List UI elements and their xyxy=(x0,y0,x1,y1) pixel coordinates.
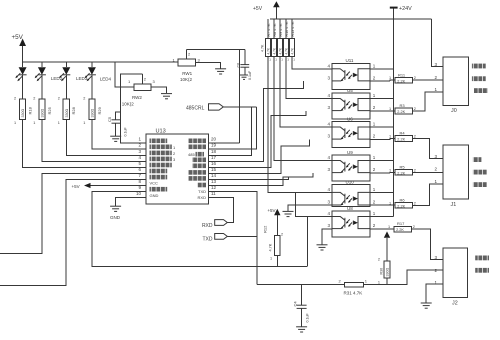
svg-text:2: 2 xyxy=(414,76,416,80)
ground (C4) xyxy=(296,327,307,332)
svg-text:R31 4.7K: R31 4.7K xyxy=(344,291,363,296)
wire: U8 pin3 to ground xyxy=(322,229,332,244)
ground (C5) xyxy=(110,136,121,141)
svg-text:R25: R25 xyxy=(47,106,52,114)
svg-text:VCC: VCC xyxy=(150,181,159,186)
svg-text:4.7K: 4.7K xyxy=(261,44,265,52)
svg-text:2: 2 xyxy=(413,225,415,229)
svg-text:J2: J2 xyxy=(452,300,458,306)
optocoupler U5 xyxy=(327,88,375,119)
svg-text:2.2K: 2.2K xyxy=(397,79,405,83)
capacitor C6 0.1uF xyxy=(237,50,253,80)
ground (C6) xyxy=(240,75,248,79)
svg-text:2: 2 xyxy=(83,97,85,101)
svg-text:1: 1 xyxy=(389,201,391,205)
wire: U13 pin10 to ground xyxy=(116,198,146,206)
label J0 pin1 (Chinese) xyxy=(474,88,488,93)
resistor pack R13 4.7K xyxy=(290,19,295,57)
wire R28 to U13 pin3 xyxy=(66,120,146,156)
wire: +5V bus to RW1 pin1 xyxy=(23,61,178,63)
svg-text:4.7K: 4.7K xyxy=(273,47,277,54)
label J1 pin2 (Chinese) xyxy=(473,170,487,175)
wire R25 to U13 pin4 xyxy=(42,120,146,162)
svg-text:+5V: +5V xyxy=(267,208,275,213)
LED3 xyxy=(59,62,88,81)
svg-text:2.2K: 2.2K xyxy=(396,228,404,232)
svg-text:0.1uF: 0.1uF xyxy=(248,70,252,80)
svg-text:2: 2 xyxy=(14,97,16,101)
resistor R3 2.2K xyxy=(370,103,416,114)
ground (J2 pin1) xyxy=(421,303,432,308)
ground (U8 emitter) xyxy=(317,245,328,250)
svg-text:U10: U10 xyxy=(346,179,355,184)
svg-text:U9: U9 xyxy=(347,150,353,155)
power +5V at U13 pin8 xyxy=(72,183,91,189)
wire: U13 pin13 stub xyxy=(208,177,288,186)
power +5V at R12 xyxy=(267,208,280,235)
wire: R3 to J0 pin1 xyxy=(413,92,443,111)
U13 left pin labels (Chinese) xyxy=(150,139,177,198)
IC U13 xyxy=(146,129,208,205)
wire: U13 pin14 from U9 emitter xyxy=(208,173,313,180)
svg-text:4.7K: 4.7K xyxy=(279,47,283,54)
label J0 pin3 (Chinese) xyxy=(472,64,486,69)
svg-text:1: 1 xyxy=(389,135,391,139)
pin numbers right U13 xyxy=(211,137,217,196)
wire: R17 to J2 pin3 xyxy=(411,229,443,260)
LED4 xyxy=(85,62,112,82)
svg-text:+5V: +5V xyxy=(12,34,24,41)
ground (U13 pin10) xyxy=(110,206,121,211)
wire: pack R13 to U11 pin4 xyxy=(292,56,332,68)
wire LED4 to R29 xyxy=(91,75,93,99)
resistor R5 2.2K xyxy=(370,165,416,176)
wire: 485CRL flag to risers xyxy=(223,106,256,108)
svg-text:R3: R3 xyxy=(400,103,406,108)
U13 right pin labels (Chinese) xyxy=(188,139,206,200)
svg-text:2: 2 xyxy=(414,201,416,205)
svg-text:1: 1 xyxy=(388,225,390,229)
wire: U13 pin6 loop to left edge xyxy=(0,173,146,253)
svg-text:R6: R6 xyxy=(400,198,406,203)
svg-text:1: 1 xyxy=(270,257,272,261)
LED1 xyxy=(15,62,26,81)
wire LED1 to R18 xyxy=(22,75,24,99)
wire: RW1 wiper top loop xyxy=(187,49,245,51)
power +24V arrow at R30 xyxy=(384,231,390,261)
svg-text:R28: R28 xyxy=(71,106,76,114)
svg-text:2: 2 xyxy=(414,135,416,139)
svg-text:R10 4.7K: R10 4.7K xyxy=(285,21,289,37)
svg-text:R4: R4 xyxy=(400,131,406,136)
wire: RW2 wiper to U13 pin1 xyxy=(121,74,147,143)
svg-text:R11: R11 xyxy=(398,72,406,77)
capacitor C5 0.1uF xyxy=(107,112,128,137)
svg-text:TXD: TXD xyxy=(198,189,206,194)
wire: R5 to J1 pin2 xyxy=(413,171,443,173)
svg-text:20: 20 xyxy=(211,137,217,142)
wire R18 to U13 pin5 xyxy=(23,120,146,168)
connector J2 xyxy=(434,248,467,306)
optocoupler U6 xyxy=(327,116,375,147)
svg-text:1: 1 xyxy=(58,121,60,125)
power +5V top-left xyxy=(12,34,27,62)
svg-text:4.7K: 4.7K xyxy=(291,47,295,54)
svg-text:2: 2 xyxy=(281,233,283,237)
svg-text:R17: R17 xyxy=(397,221,405,226)
svg-text:0.1uF: 0.1uF xyxy=(306,313,310,323)
wire: U13 pin19 riser xyxy=(208,107,256,149)
resistor R29 330ohm xyxy=(83,97,102,126)
wire: U13 pin20 stub xyxy=(208,142,239,144)
svg-text:2: 2 xyxy=(378,258,380,262)
wire: pack R7 to U10 pin4 and U8 pin4 xyxy=(268,56,332,192)
svg-text:GND: GND xyxy=(150,193,159,198)
svg-text:R7 4.7K: R7 4.7K xyxy=(267,23,271,37)
wire: pack R9 to U6 pin4 xyxy=(280,56,332,127)
wire R29 to U13 pin2 xyxy=(92,120,146,150)
optocoupler U9 xyxy=(327,150,375,181)
svg-text:1: 1 xyxy=(389,107,391,111)
resistor R4 2.2K xyxy=(370,131,416,142)
ground (RW1) xyxy=(215,69,226,74)
wire: U13 pin17 from U11 emitter xyxy=(208,81,303,161)
wire: U13 pin16 from U5 emitter xyxy=(208,111,306,167)
svg-text:4.7K: 4.7K xyxy=(285,47,289,54)
svg-text:330Ω: 330Ω xyxy=(91,109,95,118)
optocoupler U8 xyxy=(327,206,375,237)
svg-text:2.2K: 2.2K xyxy=(397,110,405,114)
svg-text:R5: R5 xyxy=(400,165,406,170)
LED2 xyxy=(35,62,63,81)
svg-text:2.2K: 2.2K xyxy=(397,205,405,209)
svg-text:2: 2 xyxy=(414,107,416,111)
wire: +5V arrow to U13 pin8 xyxy=(91,185,147,187)
wire: mode net lower run xyxy=(257,284,344,286)
svg-text:4.7K: 4.7K xyxy=(267,47,271,54)
svg-text:1: 1 xyxy=(378,281,380,285)
label J1 pin3 (Chinese) xyxy=(473,157,482,162)
svg-text:4.7K: 4.7K xyxy=(269,243,273,251)
svg-text:1: 1 xyxy=(83,121,85,125)
svg-text:R8 4.7K: R8 4.7K xyxy=(273,23,277,37)
svg-text:10K(2: 10K(2 xyxy=(180,77,193,82)
svg-text:U11: U11 xyxy=(346,58,354,63)
svg-text:330Ω: 330Ω xyxy=(21,109,25,118)
resistor pack R8 4.7K xyxy=(272,19,277,57)
svg-text:330Ω: 330Ω xyxy=(65,109,69,118)
svg-text:0.1uF: 0.1uF xyxy=(124,127,128,137)
wire: U13 pin15 from U6 emitter xyxy=(208,140,309,174)
svg-text:R13 4.7K: R13 4.7K xyxy=(291,21,295,37)
wire: +5V bus to RW2 pin1 xyxy=(115,62,134,87)
resistor pack R9 4.7K xyxy=(278,19,283,57)
svg-text:R9 4.7K: R9 4.7K xyxy=(279,23,283,37)
resistor pack R7 4.7K xyxy=(266,19,271,57)
svg-text:U8: U8 xyxy=(347,206,353,211)
capacitor C4 0.1uF xyxy=(293,285,310,327)
wire: U13 pin12 to TXD flag and mode net xyxy=(208,192,257,285)
wire: opto anode feeds from +24V rail xyxy=(370,69,393,217)
svg-text:R30: R30 xyxy=(380,268,384,275)
resistor R28 330ohm xyxy=(58,97,76,126)
svg-text:U5: U5 xyxy=(347,88,353,93)
resistor R12 4.7K xyxy=(263,225,284,266)
svg-text:RXD: RXD xyxy=(202,223,213,229)
power +24V xyxy=(390,6,412,12)
svg-text:485: 485 xyxy=(188,152,195,157)
optocoupler U11 xyxy=(327,58,375,89)
resistor R6 2.2K xyxy=(370,198,416,209)
wire: U10 pin3 to ground xyxy=(288,205,332,211)
svg-text:330Ω: 330Ω xyxy=(386,268,390,277)
wire: R4 to J1 pin3 xyxy=(413,139,443,159)
wire LED3 to R28 xyxy=(65,75,67,99)
label J1 pin1 (Chinese) xyxy=(473,182,487,187)
wire: pack R8 to U9 pin4 xyxy=(274,56,332,160)
svg-text:330Ω: 330Ω xyxy=(41,109,45,118)
svg-text:2.2K: 2.2K xyxy=(397,138,405,142)
wire: +24V rail down opto anodes xyxy=(393,9,395,217)
flag RXD xyxy=(202,220,227,229)
label J2 pin3 (Chinese) xyxy=(475,256,489,261)
svg-text:LED4: LED4 xyxy=(100,77,112,82)
wire: U13 pin18 to 485CRL riser xyxy=(208,107,251,155)
svg-text:2: 2 xyxy=(33,97,35,101)
resistor R30 330ohm xyxy=(378,258,390,285)
wire: RW2 pin3 to ground xyxy=(151,87,167,93)
svg-text:485CRL: 485CRL xyxy=(186,105,205,111)
wire: R6 to J1 pin1 xyxy=(413,184,443,206)
svg-text:J1: J1 xyxy=(451,202,457,208)
svg-text:R18: R18 xyxy=(28,106,33,114)
connector J0 xyxy=(434,57,468,114)
svg-text:C6: C6 xyxy=(237,63,241,68)
wire: R11 to J0 pin2 xyxy=(413,79,443,81)
svg-text:RW1: RW1 xyxy=(182,71,192,76)
svg-text:10K(2: 10K(2 xyxy=(122,102,135,107)
wire: U13 pin11 to RXD flag xyxy=(208,198,233,223)
resistor R11 2.2K xyxy=(370,72,416,83)
svg-text:C5: C5 xyxy=(107,116,112,122)
wire: wiper loop down to U13 pin20 xyxy=(239,50,241,144)
wire: mode net riser xyxy=(307,217,309,267)
potentiometer RW1 10K xyxy=(173,50,201,82)
resistor R17 2.2K xyxy=(370,221,415,232)
wire: pack R10 to U5 pin4 xyxy=(286,56,332,98)
potentiometer RW2 10K xyxy=(122,74,156,107)
svg-text:+5V: +5V xyxy=(72,184,80,189)
label J0 pin2 (Chinese) xyxy=(472,76,486,81)
resistor R31 4.7K xyxy=(339,279,368,296)
label J2 pin2 (Chinese) xyxy=(475,268,489,273)
svg-text:U6: U6 xyxy=(347,116,353,121)
wire: R31 to J2 pin2 xyxy=(364,270,444,285)
svg-text:RXD: RXD xyxy=(198,195,207,200)
ground (U10 emitter) xyxy=(283,211,294,216)
svg-text:2: 2 xyxy=(414,168,416,172)
svg-text:1: 1 xyxy=(33,121,35,125)
flag 485CRL xyxy=(186,104,223,112)
svg-text:GND: GND xyxy=(110,215,121,220)
wire: top rail xyxy=(270,18,431,20)
flag TXD xyxy=(203,234,228,243)
wire: J2 pin1 to ground xyxy=(426,284,443,303)
svg-text:TXD: TXD xyxy=(203,237,213,243)
svg-text:1: 1 xyxy=(389,168,391,172)
wire: rail to J0 pin3 xyxy=(432,19,444,67)
svg-text:1: 1 xyxy=(389,76,391,80)
svg-text:+24V: +24V xyxy=(399,6,412,12)
svg-text:1: 1 xyxy=(14,121,16,125)
resistor pack R10 4.7K xyxy=(284,19,289,57)
svg-text:U13: U13 xyxy=(156,129,166,135)
optocoupler U10 xyxy=(327,179,375,206)
wire LED2 to R25 xyxy=(41,75,43,99)
svg-text:2.2K: 2.2K xyxy=(397,172,405,176)
wire: RW1 pin3 to ground xyxy=(196,62,221,68)
pin numbers left U13 xyxy=(136,137,142,196)
svg-text:2: 2 xyxy=(58,97,60,101)
svg-text:C4: C4 xyxy=(293,301,298,307)
svg-text:J0: J0 xyxy=(451,108,457,114)
resistor R18 330ohm xyxy=(14,97,33,126)
svg-text:RW2: RW2 xyxy=(132,95,142,100)
wire: U13 pin9 to mode net xyxy=(92,192,307,267)
ground (RW2) xyxy=(161,94,172,99)
resistor R25 330ohm xyxy=(33,97,52,126)
svg-text:+5V: +5V xyxy=(253,6,263,12)
connector J1 xyxy=(434,145,468,208)
wire: U13 pin7 loop to left edge xyxy=(0,180,146,286)
svg-text:R12: R12 xyxy=(263,225,268,233)
power +5V top-center xyxy=(253,1,280,19)
svg-text:R29: R29 xyxy=(97,106,102,114)
